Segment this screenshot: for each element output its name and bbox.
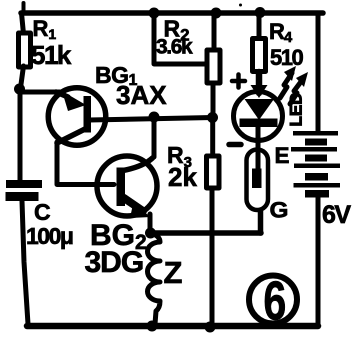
LED D — [234, 92, 283, 170]
wire R3 bottom lead — [210, 188, 215, 324]
light arrow 1 — [280, 66, 296, 98]
svg-text:100μ: 100μ — [26, 223, 73, 249]
wire R4 top lead — [257, 13, 262, 38]
wire R3 top lead — [210, 120, 215, 156]
light arrow 2 — [290, 72, 308, 104]
wire BG1 base to node C — [89, 118, 213, 121]
node E bottom rail left — [147, 321, 158, 332]
resistor R4 — [253, 39, 266, 72]
node top 1 — [149, 8, 160, 19]
resistor R1 — [19, 33, 31, 67]
wire top-left stub — [22, 3, 26, 13]
svg-text:510: 510 — [270, 45, 303, 70]
svg-text:E: E — [275, 143, 290, 168]
svg-text:LED: LED — [287, 93, 306, 127]
node D — [145, 228, 156, 239]
wire top rail — [21, 10, 323, 16]
wire left rail upper — [22, 13, 24, 34]
wire R4 bottom lead — [256, 72, 263, 93]
wire left rail to capacitor — [18, 89, 23, 182]
wire R2 bottom lead — [211, 83, 216, 113]
wire R1 to node A — [21, 66, 24, 88]
wire BG2 emitter down — [148, 214, 153, 232]
svg-text:3DG: 3DG — [85, 246, 144, 279]
svg-text:3AX: 3AX — [116, 80, 167, 110]
node top 3 — [255, 7, 266, 18]
svg-text:3.6k: 3.6k — [156, 36, 193, 59]
node F bottom rail right — [205, 322, 216, 333]
wire R2 top lead — [212, 13, 217, 50]
wire node D to G tube — [150, 230, 261, 236]
resistor R3 — [207, 156, 220, 188]
tube G — [247, 150, 269, 211]
resistor R2 — [207, 50, 220, 83]
label minus — [229, 142, 241, 148]
battery top lead — [316, 15, 321, 131]
svg-text:6V: 6V — [322, 201, 351, 229]
figure number 6 circle — [249, 276, 297, 324]
speck on top rail — [239, 4, 242, 7]
transistor BG1 — [48, 88, 106, 146]
node C — [207, 112, 218, 123]
wire bottom rail — [27, 323, 318, 330]
transistor BG2 — [97, 156, 157, 218]
svg-text:Z: Z — [164, 255, 183, 290]
node B — [149, 112, 160, 123]
label plus — [232, 75, 245, 88]
svg-text:51k: 51k — [31, 40, 72, 70]
wire node A to BG1 emitter — [20, 90, 60, 95]
node A — [14, 84, 25, 95]
node top 2 — [211, 8, 222, 19]
wire BG1 collector to BG2 base — [57, 142, 114, 185]
wire node B to BG2 collector — [152, 118, 157, 157]
wire G lead down — [258, 210, 264, 233]
battery bottom lead / right rail — [316, 197, 321, 326]
svg-text:G: G — [270, 198, 289, 223]
svg-text:C: C — [34, 199, 51, 225]
svg-text:6: 6 — [263, 271, 286, 332]
svg-text:2k: 2k — [168, 162, 197, 192]
inductor Z — [147, 233, 160, 324]
battery E — [291, 131, 340, 198]
capacitor C — [6, 180, 43, 324]
wire R2 left branch — [154, 13, 206, 64]
